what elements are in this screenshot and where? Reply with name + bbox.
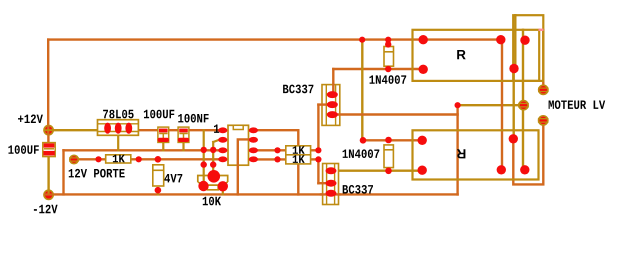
wire R2 pads to transistor Q1 base (317, 105, 319, 151)
label 1N4007 D1 (370, 75, 407, 84)
terminal moteur 1 (538, 85, 549, 94)
wire ground rail y150 (64, 149, 219, 151)
wire node to moteur terminal 3 (458, 104, 524, 106)
regulator 78L05 body (98, 120, 139, 136)
wire bottom rail -12V (49, 193, 458, 195)
pad zener bottom (155, 187, 162, 194)
label 1N4007 D2 (343, 149, 380, 158)
pad pot wiper (208, 170, 221, 183)
wire IC pin6 to R2 (253, 149, 285, 151)
pad relay1 contacts (496, 35, 505, 44)
wire column A (203, 130, 205, 186)
pad pot left (198, 181, 208, 191)
wire R3 right lead (311, 158, 319, 160)
capacitor C2 100UF body (158, 127, 169, 142)
wire Q1 base entry (318, 103, 328, 105)
capacitor C3 100NF body (178, 127, 189, 142)
pad 78L05 pins (104, 123, 111, 134)
wire node top rail to D2 column (361, 40, 363, 141)
label 100UF C1 (8, 145, 38, 154)
terminal 12V porte (69, 155, 79, 163)
wire IC pin5 to R3 (253, 158, 285, 160)
pad U1 right pins (249, 127, 258, 133)
wire crossing -12V terminal (47, 191, 49, 195)
capacitor C1 100UF body (43, 143, 55, 157)
relay RL1 box (413, 30, 540, 81)
wire relay1 NO to relay2 NO (501, 41, 503, 169)
label 10K (203, 197, 221, 206)
wire stub C1 to -12V pad (47, 156, 49, 194)
value R3 1K (293, 155, 305, 163)
terminal +12V (44, 126, 53, 135)
wire Q1 collector to D1 and relay1 coil (333, 68, 423, 70)
op-amp U1 DIP8 body (228, 125, 249, 165)
wire relay2 com detour to terminal2 (513, 125, 543, 184)
node top rail junctions (359, 37, 365, 43)
node column A dots (201, 147, 207, 153)
pad D1 (385, 41, 391, 47)
wire zener bottom stub (157, 190, 159, 194)
pad Q1 pins (327, 91, 338, 98)
wire Q2 collector row to relay2 coil (339, 169, 422, 171)
terminal -12V (44, 190, 53, 199)
pad pot right (218, 181, 228, 191)
label -12V (34, 205, 58, 214)
relay RL2 box (413, 130, 539, 179)
pad U1 left pins (218, 127, 227, 133)
wire emitter node vertical (456, 105, 458, 194)
wire column B to wiper (213, 140, 218, 176)
pad relay2 contacts (497, 165, 506, 174)
pink segment (539, 29, 544, 31)
terminal moteur 2 (538, 116, 549, 125)
wire 78L05 gnd stub (117, 136, 119, 150)
terminal moteur 3 (518, 101, 529, 110)
label MOTEUR LV (549, 100, 606, 109)
transistor Q1 BC337 body (322, 85, 340, 126)
wire C2 stub (162, 142, 164, 150)
wire stub pad to C1 (47, 131, 49, 144)
wire D2 row to relay2 coil (363, 139, 422, 141)
label BC337 Q2 (343, 185, 373, 194)
wire IC pin8 to bottom rail (253, 130, 298, 194)
wire mid rail 5V (138, 129, 218, 131)
wire Q1 emitter row (332, 113, 458, 115)
wire rail across Q2 (321, 193, 340, 195)
resistor R1 1K body (106, 155, 131, 163)
wire pot right stub (222, 186, 224, 194)
diode D2 1N4007 body (384, 145, 393, 168)
pad D2 (360, 137, 367, 144)
wire box to terminal1 (542, 30, 544, 86)
wire Q1 collector up (332, 69, 334, 95)
label 100NF C3 (178, 114, 208, 123)
wire R2 right lead (311, 149, 319, 151)
wire +12V pad to 78L05 (49, 129, 99, 131)
label +12V (18, 115, 43, 124)
wire C3 stub (182, 142, 184, 150)
node emitter junction (455, 102, 461, 108)
wire left vertical +12V feed (47, 40, 49, 128)
label BC337 Q1 (283, 85, 313, 94)
connector box top right (513, 15, 543, 81)
pad Q2 pins (326, 167, 337, 174)
value R2 1K (293, 146, 305, 154)
pin 1 marker (214, 125, 219, 133)
label 100UF C2 (144, 110, 174, 119)
label 78L05 (103, 110, 134, 119)
node column B dots (210, 147, 216, 153)
zener D3 4V7 body (153, 165, 164, 186)
wire connector inner lead (514, 15, 516, 68)
wire relay1 contact through terminal3 to relay2 contact (522, 30, 524, 170)
wire ground branch vertical (62, 150, 64, 194)
wire +12V top rail (48, 38, 500, 40)
label relay2 R rotated (457, 149, 466, 158)
label 4V7 (164, 174, 182, 182)
resistor R2 1K body (286, 146, 311, 155)
wire crossing +12V terminal (47, 126, 49, 135)
label 12V PORTE (69, 169, 125, 178)
value R1 1K (113, 155, 125, 163)
potentiometer P1 10K outline (198, 176, 228, 190)
wire porte row y159 (74, 158, 219, 160)
wire IC pin7 internal route (238, 139, 254, 194)
wire R3 pad to transistor Q2 base (317, 159, 319, 183)
pad relay1 coil (419, 35, 428, 44)
transistor Q2 BC337 body (323, 164, 339, 205)
node 12V porte wire dots (95, 156, 101, 162)
node R2 R3 pads (274, 147, 280, 153)
wire Q2 base entry (318, 182, 328, 184)
resistor R3 1K body (286, 155, 311, 164)
pad relay2 coil (418, 136, 427, 145)
wire relay1 com to relay2 com (513, 69, 515, 139)
label relay1 R (457, 50, 466, 59)
diode D1 1N4007 body (384, 47, 394, 67)
